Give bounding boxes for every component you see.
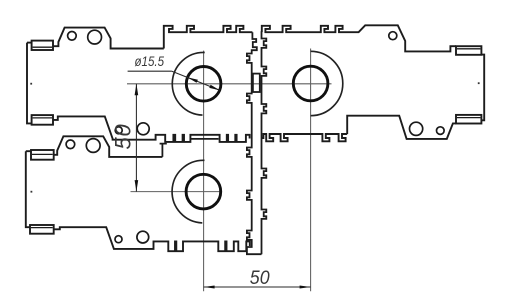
top plate right end tab upper (456, 46, 481, 55)
bottom plate bottom edge with teeth (54, 227, 250, 251)
svg-text:ø15.5: ø15.5 (135, 53, 165, 69)
small hole mid b (137, 123, 149, 135)
top plate bottom edge left section with mesh pockets (53, 116, 250, 141)
svg-text:50: 50 (111, 123, 136, 149)
horizontal dimension line 50 (204, 286, 311, 288)
bottom plate left edge (26, 151, 30, 227)
centerline vertical hole 1 / extension line (203, 51, 205, 292)
mark left edge bottom plate (31, 191, 33, 193)
hole 1 (Ø15.5) (186, 67, 221, 102)
bottom plate small hole c (115, 236, 122, 243)
small hole bottom-right a (410, 122, 423, 135)
bottom plate small hole d (137, 231, 149, 243)
svg-text:50: 50 (250, 268, 270, 289)
small hole mid a (115, 127, 122, 134)
mesh band doubled middle (191, 138, 219, 140)
top plate top-left tab (32, 41, 53, 50)
boss arc around hole 1 (172, 52, 204, 115)
hole 2 (293, 66, 328, 101)
diameter dimension Ø15.5 leader (128, 70, 172, 72)
centerline vertical hole 2 / extension line (310, 49, 312, 292)
mark right edge top plate (478, 82, 480, 84)
bottom plate top edge (26, 136, 163, 157)
small hole top-left b (88, 30, 102, 44)
top plate bottom edge right meshed section (262, 134, 347, 141)
boss arc around hole 2 (311, 51, 343, 115)
small hole top-right (389, 32, 397, 40)
top plate left edge (27, 43, 32, 124)
mark left edge top plate (30, 83, 32, 85)
bottom plate small hole b (86, 139, 100, 153)
centerline horizontal hole 3 (131, 191, 222, 193)
top plate right edge (347, 55, 484, 139)
bottom plate bottom-left tab (30, 225, 54, 234)
small hole top-left a (68, 32, 77, 41)
small hole bottom-right b (437, 127, 445, 135)
bottom plate small hole a (66, 140, 75, 149)
vertical connector strip with hooks (247, 32, 266, 254)
hole 3 (186, 174, 221, 209)
top plate bottom-left tab (32, 115, 53, 125)
strip slot (253, 74, 260, 92)
top plate right end tab lower (456, 115, 481, 124)
bottom plate step tee (160, 144, 167, 157)
boss arc around hole 3 (172, 160, 204, 223)
vertical dimension line 50 (135, 84, 137, 192)
top plate top edge with teeth (27, 42, 32, 44)
bottom plate top-left tab (31, 150, 54, 160)
centerline horizontal through holes 1 and 2 (127, 83, 332, 85)
